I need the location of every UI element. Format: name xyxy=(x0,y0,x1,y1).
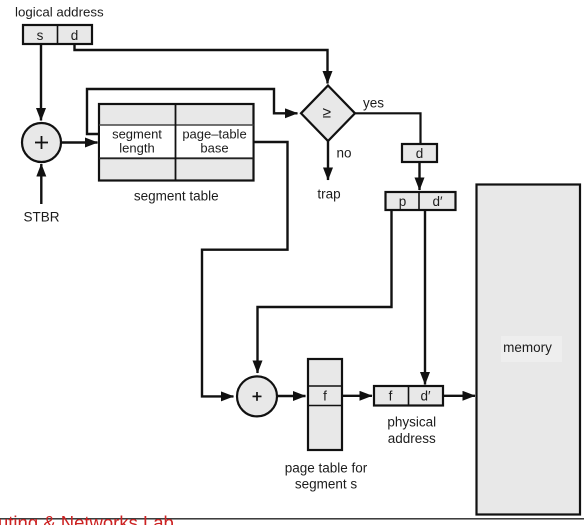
svg-text:physical: physical xyxy=(387,415,436,430)
wire box d -> box p|d' xyxy=(418,162,420,190)
svg-text:p: p xyxy=(399,194,407,209)
svg-text:f: f xyxy=(389,389,393,404)
svg-text:length: length xyxy=(119,141,154,156)
svg-text:yes: yes xyxy=(363,96,384,111)
svg-text:logical address: logical address xyxy=(15,5,104,20)
svg-text:address: address xyxy=(388,431,436,446)
adder A2 (+) xyxy=(237,376,277,416)
svg-text:f: f xyxy=(323,389,327,404)
svg-text:page–table: page–table xyxy=(182,127,246,142)
svg-text:uting & Networks Lab: uting & Networks Lab xyxy=(0,512,174,525)
svg-text:base: base xyxy=(200,141,228,156)
comparator diamond (>=) xyxy=(301,86,355,142)
svg-text:≥: ≥ xyxy=(323,105,332,122)
svg-text:d: d xyxy=(71,28,79,43)
box p|d' (split offset) xyxy=(386,192,456,210)
box s|d (logical address register) xyxy=(23,25,92,44)
adder A1 (+) xyxy=(22,123,61,162)
box d (offset register) xyxy=(402,144,437,162)
wire comparator -> box d (yes branch) xyxy=(355,113,421,144)
wire segment length -> comparator (up and over) xyxy=(87,89,298,134)
svg-text:segment: segment xyxy=(112,127,162,142)
svg-text:trap: trap xyxy=(317,187,340,202)
svg-text:STBR: STBR xyxy=(24,210,60,225)
page table for segment s (tall box with f cell) xyxy=(308,359,342,450)
wire adder A2 -> page table f cell xyxy=(277,395,306,397)
svg-text:d′: d′ xyxy=(432,194,443,209)
wire d -> comparator (top) xyxy=(75,44,328,84)
svg-text:segment table: segment table xyxy=(134,189,219,204)
wire physical address -> memory xyxy=(443,395,475,397)
svg-text:no: no xyxy=(337,146,352,161)
memory box xyxy=(477,185,581,515)
svg-text:d′: d′ xyxy=(420,389,431,404)
wire s -> adder A1 xyxy=(40,44,42,121)
wire page table f -> physical address box xyxy=(342,395,372,397)
wire page-table base -> adder A2 (long path) xyxy=(202,142,288,396)
wire adder A1 -> segment table xyxy=(62,141,98,143)
svg-text:s: s xyxy=(37,28,44,43)
box f|d' (physical address) xyxy=(374,386,443,406)
svg-text:page table for: page table for xyxy=(285,461,368,476)
label: physical address xyxy=(387,415,436,447)
label: page table for segment s xyxy=(285,461,368,492)
segment table (box with rows) xyxy=(99,104,254,181)
svg-text:d: d xyxy=(416,146,424,161)
horizontal rule (slide footer line) xyxy=(0,518,584,520)
svg-text:memory: memory xyxy=(503,340,552,355)
wire p -> adder A2 xyxy=(258,210,392,373)
wire comparator -> trap (no branch) xyxy=(327,141,329,180)
wire d' -> physical address d' xyxy=(424,210,426,385)
wire STBR -> adder A1 xyxy=(40,164,42,204)
svg-text:segment s: segment s xyxy=(295,477,358,492)
